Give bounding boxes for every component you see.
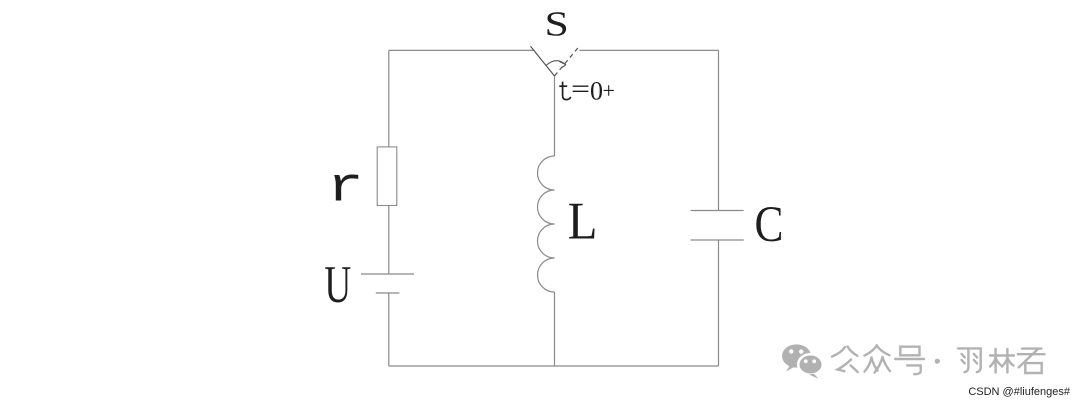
watermark wechat icon	[782, 344, 823, 378]
svg-text:CSDN @#liufenges#: CSDN @#liufenges#	[968, 386, 1071, 398]
battery U label	[324, 256, 351, 314]
battery U positive plate	[361, 273, 414, 275]
wechat small bubble eyes	[804, 359, 816, 363]
watermark hanzi 号	[895, 347, 924, 375]
watermark hanzi 羽	[958, 348, 981, 372]
wechat big bubble eyes	[789, 349, 803, 354]
wechat small bubble	[798, 354, 823, 379]
watermark middle dot	[935, 359, 940, 364]
switch label S	[545, 5, 569, 44]
switch S dashed throw position	[555, 47, 579, 76]
battery U negative plate	[376, 292, 400, 294]
svg-text:0: 0	[590, 77, 603, 106]
wire middle vertical lower	[554, 292, 556, 366]
inductor L coil	[538, 156, 555, 292]
capacitor C bottom plate	[691, 239, 744, 241]
svg-text:U: U	[324, 256, 351, 314]
svg-text:L: L	[568, 192, 598, 250]
wechat big bubble	[782, 344, 811, 371]
svg-text:=: =	[571, 74, 590, 103]
svg-text:S: S	[545, 5, 569, 44]
svg-text:+: +	[603, 78, 615, 103]
capacitor C label	[755, 197, 784, 253]
wire right vertical upper	[718, 50, 720, 210]
wire bottom	[389, 365, 719, 367]
wire left vertical middle	[388, 206, 390, 275]
watermark hanzi 众	[865, 345, 891, 372]
svg-text:r: r	[327, 160, 364, 215]
resistor r label	[327, 160, 364, 215]
label t=0+	[559, 74, 615, 105]
wire left vertical lower	[388, 293, 390, 366]
switch closing arrow	[546, 61, 566, 68]
inductor L label	[568, 192, 598, 250]
wire top-right segment	[580, 49, 719, 51]
capacitor C top plate	[691, 210, 744, 212]
svg-text:C: C	[755, 197, 784, 253]
watermark hanzi 君	[1018, 349, 1045, 373]
resistor r body	[377, 147, 397, 206]
wire middle vertical upper	[554, 76, 556, 156]
wire right vertical lower	[718, 240, 720, 366]
wire left vertical upper	[388, 50, 390, 147]
switch S blade	[531, 46, 555, 76]
watermark hanzi 林	[990, 349, 1014, 373]
watermark hanzi 公	[832, 347, 858, 373]
wire top-left segment	[389, 49, 535, 51]
